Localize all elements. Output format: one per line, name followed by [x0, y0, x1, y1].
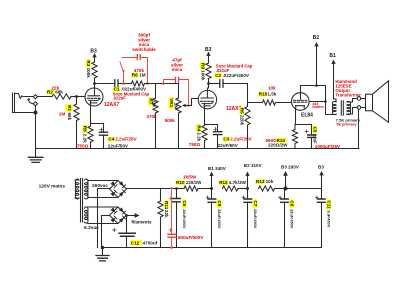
wire BR2 minus to ground [102, 216, 110, 248]
svg-text:1M: 1M [152, 100, 157, 107]
svg-text:12AX7: 12AX7 [104, 102, 120, 108]
ground symbol (input) [28, 157, 43, 162]
capacitor 47pf silver mica (red) [164, 80, 189, 106]
svg-text:R4: R4 [197, 125, 202, 131]
svg-text:Transformer: Transformer [335, 92, 361, 97]
svg-text:C9: C9 [217, 200, 222, 206]
speaker [361, 81, 389, 123]
wire V1 cathode tee [91, 100, 104, 123]
svg-text:B1 340V: B1 340V [208, 166, 227, 171]
svg-text:1000uF/25V: 1000uF/25V [315, 144, 341, 149]
capacitor C1 .022uf/400V [115, 80, 118, 87]
svg-text:1,5k: 1,5k [267, 92, 276, 97]
svg-text:R12: R12 [219, 180, 228, 185]
svg-text:5k primary: 5k primary [336, 122, 357, 127]
svg-text:600uF/500V: 600uF/500V [178, 235, 204, 240]
capacitor 600uF/500V mod (red) [170, 187, 172, 189]
svg-text:750Ω: 750Ω [77, 143, 89, 148]
output transformer T2 Hammond 125ESE [332, 99, 357, 116]
svg-text:4700uf: 4700uf [143, 240, 158, 245]
power transformer T1 [75, 179, 88, 224]
svg-text:22uF/450V: 22uF/450V [182, 209, 187, 229]
resistor R10 220/2W (1k/5W mod) [184, 186, 198, 191]
svg-text:22uF/450V: 22uF/450V [217, 209, 222, 229]
svg-text:.022uF: .022uF [216, 68, 230, 73]
wire V3 cathode tee [295, 112, 312, 125]
svg-text:220Ω/2W: 220Ω/2W [268, 143, 288, 148]
svg-text:R6: R6 [132, 73, 138, 78]
svg-text:.022uF/400V: .022uF/400V [222, 73, 249, 78]
svg-text:100k: 100k [200, 70, 205, 81]
svg-text:C12: C12 [131, 240, 140, 245]
svg-text:C8: C8 [290, 200, 295, 206]
svg-text:R11: R11 [164, 201, 169, 210]
svg-text:R5: R5 [240, 108, 245, 114]
svg-text:120V mains: 120V mains [39, 183, 66, 189]
wire B3 to preamp feed [286, 188, 322, 190]
svg-text:R15: R15 [259, 92, 268, 97]
svg-text:filaments: filaments [131, 219, 152, 224]
wire BR2 plus to filaments [127, 215, 136, 217]
svg-text:1k/5W: 1k/5W [183, 175, 197, 180]
svg-text:4.7k/3W: 4.7k/3W [229, 180, 247, 185]
svg-text:C3: C3 [223, 137, 229, 142]
svg-text:2.2k: 2.2k [197, 132, 202, 141]
svg-text:6.3vac: 6.3vac [84, 225, 99, 231]
svg-text:10k: 10k [266, 179, 274, 184]
svg-text:R1: R1 [67, 105, 72, 111]
resistor R12 4.7k/3W [223, 186, 238, 191]
capacitor C11 1uF/450V [321, 189, 323, 248]
potentiometer VR1 1M (500k mod) volume [178, 84, 180, 99]
svg-text:B2: B2 [313, 35, 320, 41]
ground symbol (power supply) [102, 248, 104, 256]
capacitor C5 22uF (1000uF/25V mod) [311, 125, 313, 149]
svg-text:C11: C11 [327, 200, 332, 209]
svg-text:EL84: EL84 [301, 113, 313, 119]
svg-text:2.2uF/25V: 2.2uF/25V [230, 137, 252, 142]
svg-text:C7: C7 [253, 200, 258, 206]
bridge rectifier BR2 (filament) [88, 207, 127, 224]
input jack J1 [13, 93, 38, 115]
capacitor C6 22uF/450V [175, 187, 178, 190]
svg-text:22uF/450V: 22uF/450V [253, 209, 258, 229]
tube V3 EL84 output pentode [292, 93, 310, 112]
svg-text:mica: mica [172, 67, 183, 72]
resistor R8 2.2k (750 mod) [90, 124, 92, 127]
capacitor C12 4700uf (filament filter) [126, 216, 128, 248]
resistor R9 100k [206, 63, 211, 78]
capacitor C4 22uF/50V (2.2uF/25V mod) [103, 123, 105, 148]
svg-text:B2 310V: B2 310V [244, 163, 263, 168]
speaker terminals [357, 97, 361, 101]
tube V1 12AX7 (first triode) [85, 88, 103, 106]
svg-text:B3: B3 [90, 48, 97, 54]
svg-text:R10: R10 [176, 180, 185, 185]
svg-text:1M: 1M [174, 103, 179, 110]
svg-text:R13: R13 [256, 179, 265, 184]
svg-text:B1: B1 [329, 53, 336, 59]
svg-text:R9: R9 [200, 63, 205, 69]
capacitor C7 22uF/450V [247, 189, 249, 248]
wire speaker return to ground [358, 109, 360, 149]
svg-text:VR1: VR1 [169, 98, 174, 107]
resistor R15 1.5k (10k mod) grid stopper [248, 102, 263, 104]
wire BR1 minus to ground [98, 189, 110, 248]
svg-text:68k: 68k [55, 89, 63, 94]
resistor R6 1M (470k mod) [132, 81, 145, 86]
svg-text:470k: 470k [146, 114, 157, 119]
capacitor C2 .022uF/400V [220, 80, 223, 87]
resistor R1 1M [76, 97, 78, 105]
svg-text:B3: B3 [318, 164, 324, 169]
switch SW1 (bright cap switch, red) [120, 58, 137, 84]
wire BR1 plus to B+ rail [127, 188, 185, 190]
tube V2 12AX7 (second triode) [198, 88, 216, 109]
svg-text:100k: 100k [86, 68, 91, 79]
wire V1 plate to C1 [95, 83, 115, 85]
wire jack tip to R2 [38, 96, 53, 98]
capacitor C8 22uF/450V [284, 189, 286, 248]
resistor R13 10k [259, 186, 275, 191]
svg-text:1M: 1M [139, 73, 146, 78]
svg-text:22k: 22k [164, 210, 169, 218]
svg-text:2.2uF/25V: 2.2uF/25V [115, 137, 137, 142]
svg-text:500k: 500k [165, 118, 176, 123]
wire V2 cathode tee [205, 104, 218, 125]
svg-text:22uF/50V: 22uF/50V [108, 144, 129, 149]
resistor R2 68k (22k mod) [52, 94, 71, 99]
svg-text:2.2k: 2.2k [83, 134, 88, 143]
resistor R7 1M (470k mod) [155, 84, 157, 99]
capacitor 390pf silver mica (red) [137, 55, 140, 60]
resistor R5 220k [247, 103, 249, 107]
svg-text:.022uF: .022uF [113, 96, 127, 101]
svg-text:220k: 220k [240, 115, 245, 126]
capacitor C3 22uF/50V (2.2uF/25V mod) [217, 125, 219, 149]
svg-text:C2: C2 [215, 73, 221, 78]
svg-text:C5: C5 [313, 127, 318, 133]
svg-text:22uF: 22uF [313, 134, 318, 144]
wire VR1 wiper to V2 grid [184, 99, 199, 106]
capacitor C9 22uF/450V [211, 189, 213, 248]
svg-text:750Ω: 750Ω [189, 142, 201, 147]
svg-text:220/2W: 220/2W [186, 180, 202, 185]
svg-text:1uF/450V: 1uF/450V [327, 210, 332, 227]
svg-text:1M: 1M [59, 112, 66, 117]
ground rail (preamp) [36, 148, 359, 150]
ground rail (power supply) [103, 247, 322, 249]
wire screen grid [301, 86, 326, 93]
wire V2 plate to C2 [209, 83, 220, 85]
svg-text:22uF/50V: 22uF/50V [218, 143, 239, 148]
svg-text:C4: C4 [108, 137, 114, 142]
svg-text:10k: 10k [268, 86, 276, 91]
resistor R14 220/2W (560 mod) [294, 125, 296, 130]
svg-text:12AX7: 12AX7 [226, 106, 242, 112]
svg-text:68k: 68k [67, 113, 72, 121]
svg-text:22uF/450V: 22uF/450V [290, 209, 295, 229]
svg-text:R8: R8 [83, 126, 88, 132]
svg-text:C6: C6 [182, 200, 187, 206]
svg-text:R3: R3 [86, 60, 91, 66]
svg-text:B3 293V: B3 293V [281, 164, 300, 169]
svg-text:switchable: switchable [132, 47, 156, 52]
svg-text:heaters: heaters [312, 105, 324, 109]
resistor R4 2.2k (750 mod) [204, 125, 206, 126]
wire EL84 plate to output transformer [309, 86, 336, 115]
bridge rectifier BR1 (HV) [88, 181, 127, 198]
resistor R11 22k bleeder [160, 189, 162, 202]
resistor R3 100k [92, 62, 97, 78]
svg-text:R2: R2 [47, 89, 53, 94]
wire jack ground down [35, 113, 37, 157]
